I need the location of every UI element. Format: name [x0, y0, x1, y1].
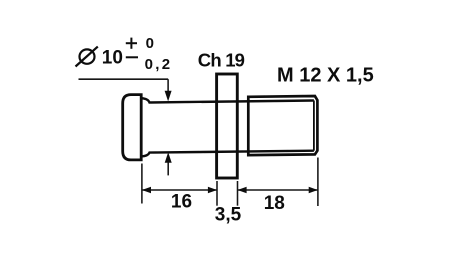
svg-text:16: 16 — [171, 192, 192, 213]
svg-text:10: 10 — [102, 48, 123, 69]
svg-text:3,5: 3,5 — [215, 205, 242, 226]
svg-text:18: 18 — [264, 193, 285, 214]
svg-text:M 12 X 1,5: M 12 X 1,5 — [277, 64, 374, 86]
svg-text:Ch 19: Ch 19 — [198, 49, 245, 70]
svg-text:0,2: 0,2 — [145, 56, 173, 73]
svg-text:0: 0 — [146, 35, 154, 52]
